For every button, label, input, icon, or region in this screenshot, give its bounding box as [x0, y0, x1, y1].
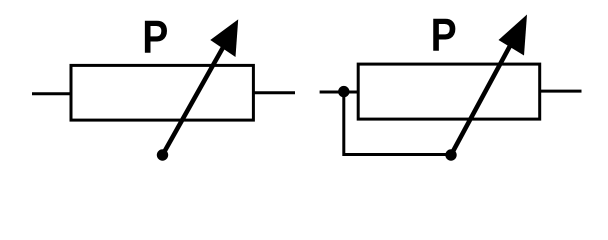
- svg-text:P: P: [142, 12, 168, 64]
- svg-text:P: P: [431, 10, 457, 62]
